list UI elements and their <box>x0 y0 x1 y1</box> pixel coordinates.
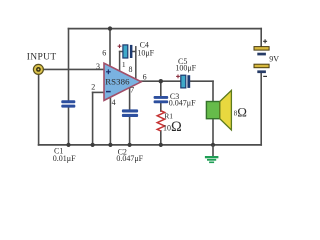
battery minus sign <box>263 75 267 77</box>
svg-text:0.01μF: 0.01μF <box>53 154 76 163</box>
wire C3 to R1 <box>160 103 162 111</box>
op-amp minus sign <box>106 91 111 93</box>
svg-text:0.047μF: 0.047μF <box>169 99 196 108</box>
capacitor C4 plates (polarized 10uF) <box>123 45 132 58</box>
node: output junction <box>159 79 163 83</box>
wire input jack stem down <box>38 75 40 145</box>
C5 plus sign <box>176 75 180 79</box>
svg-text:8: 8 <box>129 65 133 74</box>
node: pin2 ground junction <box>91 143 95 147</box>
C4 plus sign <box>118 44 122 48</box>
wire pin 8 stub down <box>135 47 137 79</box>
svg-text:6: 6 <box>143 73 147 82</box>
svg-text:0.047μF: 0.047μF <box>116 154 143 163</box>
wire pin 1 stub up <box>119 52 121 72</box>
capacitor C5 plates (polarized 100uF) <box>181 75 190 88</box>
speaker cone <box>220 90 232 130</box>
input jack J1 <box>33 64 43 74</box>
wire C5 to speaker corner <box>190 80 213 82</box>
wire battery top lead <box>260 29 262 47</box>
node: R1 ground junction <box>159 143 163 147</box>
node: C2 ground junction <box>128 143 132 147</box>
wire left branch bottom (C1 to ground rail) <box>68 107 70 145</box>
svg-text:6: 6 <box>102 49 106 58</box>
node: C1 ground junction <box>66 143 70 147</box>
capacitor C1 plates <box>61 100 75 107</box>
wire C2 to ground rail <box>129 117 131 145</box>
wire pin 4 down to ground rail <box>109 97 111 145</box>
svg-text:100μF: 100μF <box>175 64 196 73</box>
svg-text:Ω: Ω <box>237 104 247 119</box>
svg-text:9V: 9V <box>269 55 279 64</box>
svg-text:7: 7 <box>130 86 134 95</box>
wire output pin to C5 <box>141 80 181 82</box>
svg-text:4: 4 <box>112 98 116 107</box>
svg-text:1: 1 <box>122 60 126 69</box>
wire battery bottom lead <box>260 73 262 145</box>
wire down into speaker <box>212 81 214 102</box>
op-amp U1 RS386 triangle <box>104 63 141 100</box>
svg-text:RS386: RS386 <box>105 76 130 86</box>
wire pin 2 down to ground rail <box>92 92 94 144</box>
wire left branch top (top rail to C1) <box>68 29 70 101</box>
wire pin 2 horizontal <box>93 91 105 93</box>
svg-text:10μF: 10μF <box>137 49 154 58</box>
op-amp plus sign <box>106 69 111 74</box>
resistor R1 zigzag <box>157 111 164 131</box>
wire R1 to ground rail <box>160 131 162 145</box>
wire speaker to ground rail <box>212 119 214 145</box>
node: pin4 ground junction <box>108 143 112 147</box>
wire pin 7 down to C2 <box>129 88 131 111</box>
capacitor C3 plates <box>154 96 169 103</box>
svg-text:INPUT: INPUT <box>27 53 57 63</box>
node: pin6 / top rail junction <box>108 26 112 30</box>
battery BT1 9V <box>254 47 269 74</box>
svg-text:2: 2 <box>91 83 95 92</box>
node: speaker ground junction <box>211 143 215 147</box>
wire top rail V+ <box>69 28 262 30</box>
wire C3 branch from output node <box>160 81 162 96</box>
ground symbol <box>205 145 219 163</box>
wire C4 plate link to pin 8 <box>132 51 136 53</box>
wire input to pin 3 <box>43 68 105 70</box>
speaker LS1 driver square <box>206 102 219 119</box>
battery plus sign <box>263 39 267 43</box>
wire pin 6 to top rail <box>109 29 111 67</box>
svg-text:3: 3 <box>96 62 100 71</box>
wire bottom ground rail <box>39 144 262 146</box>
capacitor C2 plates <box>122 109 138 117</box>
wire pin 1 link to C4 plate <box>120 51 123 53</box>
